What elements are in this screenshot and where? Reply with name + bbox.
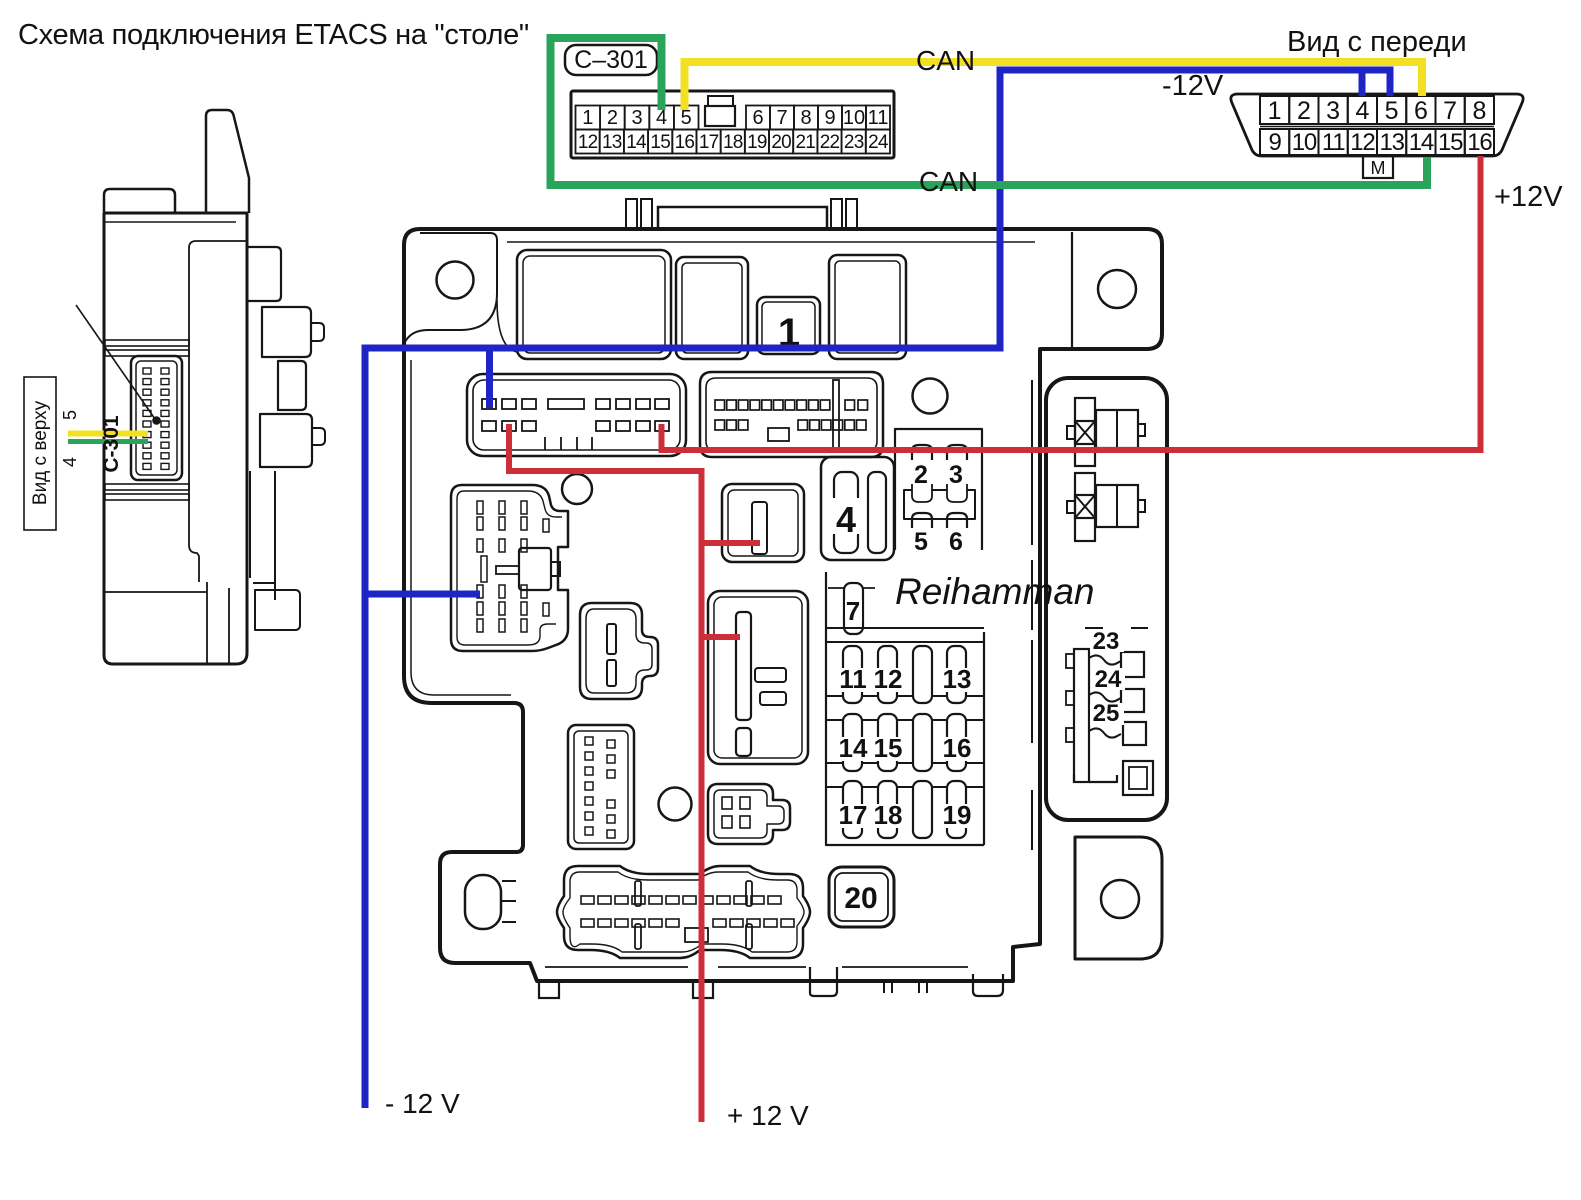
top-right tab hole — [1098, 270, 1136, 308]
connector G slots — [736, 612, 751, 720]
wire: red +12V — [509, 156, 1481, 1122]
fusebox bottom feet — [539, 981, 559, 998]
svg-text:4: 4 — [836, 499, 856, 540]
svg-text:+ 12 V: + 12 V — [727, 1100, 809, 1131]
connector I slot — [752, 502, 767, 554]
svg-text:18: 18 — [874, 800, 903, 830]
svg-text:19: 19 — [747, 132, 767, 153]
box 1 — [757, 297, 820, 354]
svg-text:Reihamman: Reihamman — [895, 571, 1094, 612]
green stub wire pin4 — [68, 439, 148, 444]
svg-text:19: 19 — [943, 800, 972, 830]
svg-text:15: 15 — [874, 733, 903, 763]
circle near connector E — [659, 788, 692, 821]
ETACS module side view: double bars above connector — [105, 484, 189, 490]
svg-text:24: 24 — [1095, 666, 1122, 693]
svg-text:8: 8 — [800, 107, 811, 129]
connector G lower slot — [736, 728, 751, 756]
bottom-right tab hole — [1101, 880, 1139, 918]
svg-text:16: 16 — [943, 733, 972, 763]
svg-text:21: 21 — [796, 132, 816, 153]
ETACS module side view: inner top line — [104, 221, 236, 223]
svg-text:2: 2 — [607, 107, 618, 129]
connector D slots — [607, 624, 616, 654]
svg-text:14: 14 — [839, 733, 868, 763]
svg-text:9: 9 — [1269, 129, 1282, 156]
fuse 3 bracket — [947, 445, 967, 460]
connector F key box — [685, 928, 708, 942]
OBD pin grid — [1260, 96, 1289, 124]
connector A outer — [467, 374, 686, 456]
connector C-301 on module (side view) — [131, 356, 182, 480]
svg-text:23: 23 — [844, 132, 864, 153]
connector A pins row1 — [482, 399, 496, 409]
connector J outer — [821, 457, 894, 560]
svg-text:11: 11 — [1322, 129, 1345, 156]
relay box R1 — [517, 250, 671, 359]
fusebox bottom rim line — [545, 966, 968, 968]
svg-text:25: 25 — [1093, 700, 1120, 727]
svg-text:+12V: +12V — [1494, 181, 1563, 213]
fusebox top protrusion — [658, 207, 827, 229]
connector C cutout box — [519, 548, 551, 590]
connector E pins — [585, 737, 593, 745]
connector B bottom key — [768, 428, 789, 441]
svg-text:Вид с переди: Вид с переди — [1287, 26, 1467, 58]
module right-side lower block — [255, 590, 300, 630]
fuse 7 — [844, 583, 863, 634]
svg-text:14: 14 — [1409, 129, 1434, 156]
svg-text:12: 12 — [578, 132, 598, 153]
ETACS module side view: inner panel lines — [104, 241, 247, 664]
fusebox top tabs right — [831, 199, 842, 229]
connector C-301 key tab — [708, 96, 733, 106]
ETACS module side view: top fin — [206, 110, 249, 213]
connector E outer — [568, 725, 634, 849]
connector C-301 pin grid — [576, 106, 601, 130]
module right-side block A — [247, 247, 281, 301]
svg-text:1: 1 — [1268, 97, 1282, 125]
svg-text:17: 17 — [699, 132, 719, 153]
bottom-left bulge ticks — [502, 881, 516, 922]
label 23 — [1090, 630, 1124, 652]
label 4 background — [830, 498, 860, 534]
svg-text:1: 1 — [582, 107, 593, 129]
fuse row 17-19 — [843, 781, 862, 838]
wire: green CAN — [551, 38, 1428, 185]
svg-text:CAN: CAN — [916, 45, 975, 76]
OBD row separator — [1260, 126, 1494, 128]
svg-text:12: 12 — [874, 664, 903, 694]
svg-text:16: 16 — [1467, 129, 1492, 156]
svg-text:20: 20 — [771, 132, 791, 153]
yellow stub wire pin5 — [68, 431, 148, 437]
fuse 23 — [1089, 655, 1121, 664]
fuse 23-25 bus bar — [1074, 649, 1089, 782]
svg-text:10: 10 — [843, 107, 865, 129]
connector C outer — [451, 485, 568, 651]
connector B divider — [833, 380, 839, 449]
fuse bus bars — [826, 628, 984, 642]
connector H pins — [722, 797, 732, 809]
connector C inner — [457, 491, 562, 645]
svg-text:18: 18 — [723, 132, 743, 153]
module right-side block C — [278, 361, 306, 410]
svg-text:13: 13 — [1379, 129, 1404, 156]
svg-text:5: 5 — [914, 528, 928, 556]
connector B outer — [700, 372, 883, 457]
connector D outer — [580, 603, 658, 699]
connector C-301 label box — [565, 45, 657, 75]
connector A bottom notch — [545, 437, 592, 450]
fuse row 11-13 — [843, 646, 862, 703]
svg-text:2: 2 — [1297, 97, 1311, 125]
label box: Вид с верху — [24, 377, 56, 530]
connector C bar — [496, 566, 519, 574]
module right-side block B nub — [311, 323, 324, 341]
fusebox right edge strip — [1031, 380, 1033, 850]
svg-text:4: 4 — [1355, 97, 1369, 125]
fuse block K frame — [895, 429, 982, 550]
svg-text:3: 3 — [1326, 97, 1340, 125]
svg-text:7: 7 — [846, 596, 860, 626]
relay symbol 1 — [1075, 398, 1095, 466]
wire: blue -12V harness — [365, 70, 1390, 1108]
label 24 — [1091, 668, 1125, 690]
svg-text:15: 15 — [650, 132, 670, 153]
svg-text:4: 4 — [656, 107, 667, 129]
svg-text:2: 2 — [914, 461, 928, 489]
svg-text:15: 15 — [1438, 129, 1463, 156]
connector F pins row1 — [581, 896, 594, 904]
leader dot — [153, 417, 161, 425]
svg-text:20: 20 — [844, 882, 877, 915]
connector B pins row2 — [715, 420, 725, 430]
module right-side block B — [262, 307, 311, 357]
bottom-right mounting tab — [1075, 837, 1162, 959]
svg-text:-12V: -12V — [1162, 70, 1224, 102]
svg-text:- 12 V: - 12 V — [385, 1088, 460, 1119]
svg-text:17: 17 — [839, 800, 868, 830]
leader line to connector — [76, 305, 155, 419]
fuse block K mid box — [912, 484, 967, 490]
connector C-301 top view: outer box — [571, 91, 894, 158]
fuse 23-25 pads — [1066, 654, 1074, 668]
OBD connector trapezoid — [1231, 94, 1523, 156]
svg-text:24: 24 — [868, 132, 889, 153]
bottom-left bulge oval — [465, 875, 501, 929]
svg-text:22: 22 — [820, 132, 840, 153]
connector F pins row2 — [581, 919, 594, 927]
fuse 2 bracket — [912, 445, 932, 460]
svg-text:5: 5 — [1385, 97, 1399, 125]
svg-text:Схема подключения ETACS на "ст: Схема подключения ETACS на "столе" — [18, 19, 529, 51]
fusebox inner left line — [411, 360, 511, 695]
svg-text:11: 11 — [839, 664, 867, 694]
label 7 — [845, 600, 862, 622]
svg-text:9: 9 — [824, 107, 835, 129]
svg-text:13: 13 — [943, 664, 972, 694]
connector F outer — [557, 866, 810, 958]
svg-text:6: 6 — [752, 107, 763, 129]
svg-text:12: 12 — [1350, 129, 1375, 156]
circle near connector B — [913, 379, 948, 414]
svg-text:6: 6 — [1414, 97, 1428, 125]
fusebox top tabs left — [626, 199, 637, 229]
connector I outer — [722, 484, 804, 562]
svg-text:13: 13 — [602, 132, 622, 153]
fuse 23-25 end connector — [1123, 761, 1153, 795]
fuse grid frame — [826, 572, 984, 845]
connector C pins — [477, 501, 483, 514]
connector A pins row2 — [482, 421, 496, 431]
svg-text:Вид с верху: Вид с верху — [30, 400, 51, 505]
ETACS module side view: main body outline — [104, 213, 247, 664]
top-left mounting ear — [404, 233, 497, 344]
ETACS module side view: bars below connector — [105, 340, 189, 346]
fuse row 14-16 — [843, 714, 862, 771]
module right-side lower strip — [250, 471, 275, 600]
svg-text:3: 3 — [631, 107, 642, 129]
svg-text:M: M — [1371, 158, 1386, 178]
right block outer — [1046, 378, 1167, 820]
svg-text:7: 7 — [1443, 97, 1457, 125]
fusebox inner top line — [507, 241, 1035, 243]
relay symbol 2 — [1075, 473, 1095, 541]
svg-text:10: 10 — [1292, 129, 1317, 156]
relay box R3 — [829, 255, 906, 359]
connector J slots — [834, 472, 858, 553]
box 20 — [829, 867, 894, 927]
svg-text:23: 23 — [1093, 628, 1120, 655]
fuse 5 bracket — [912, 513, 932, 528]
svg-text:11: 11 — [868, 107, 889, 129]
svg-text:7: 7 — [776, 107, 787, 129]
svg-text:5: 5 — [681, 107, 692, 129]
fusebox case outline — [404, 229, 1162, 981]
connector C cutout nub — [551, 562, 560, 576]
svg-text:CAN: CAN — [919, 166, 978, 197]
fuse 25 — [1089, 728, 1121, 737]
connector C-301 pin columns — [143, 368, 151, 374]
fuse 24 — [1089, 692, 1121, 701]
relay box R2 — [676, 257, 748, 359]
connector G outer — [708, 591, 808, 764]
small top dashes — [1085, 627, 1148, 629]
connector F verticals — [635, 881, 641, 906]
fuse 6 bracket — [947, 513, 967, 528]
ETACS module side view: top step block — [104, 189, 175, 213]
label 25 — [1090, 703, 1124, 725]
connector H outer — [708, 784, 790, 844]
module right-side block D nub — [312, 428, 325, 445]
svg-text:16: 16 — [675, 132, 695, 153]
svg-text:C–301: C–301 — [574, 46, 648, 74]
svg-text:C-301: C-301 — [100, 415, 123, 473]
circle below connector A — [562, 474, 592, 504]
connector B pins row1 — [715, 400, 725, 410]
svg-text:6: 6 — [949, 528, 963, 556]
svg-text:3: 3 — [949, 461, 963, 489]
svg-text:14: 14 — [626, 132, 647, 153]
top-left ear hole — [437, 262, 474, 299]
OBD M box — [1363, 156, 1393, 178]
svg-text:8: 8 — [1472, 97, 1486, 125]
wire: yellow CAN — [685, 62, 1423, 110]
top-right mounting tab — [1071, 232, 1073, 349]
svg-text:5: 5 — [60, 410, 80, 420]
module right-side block D — [260, 414, 312, 467]
svg-text:4: 4 — [60, 457, 80, 467]
